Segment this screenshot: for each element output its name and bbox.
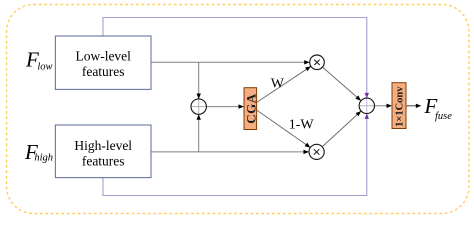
arrowhead output — [416, 104, 422, 108]
final sum circle — [359, 98, 374, 113]
arrowhead into lower multiply (left) — [304, 150, 310, 154]
svg-text:high: high — [34, 152, 53, 163]
svg-text:features: features — [82, 64, 125, 79]
wire left sum to CGA — [206, 106, 239, 108]
svg-text:fuse: fuse — [435, 111, 452, 122]
left sum circle — [191, 99, 206, 114]
1x1 conv box — [392, 83, 406, 129]
arrowhead into upper multiply (from CGA) — [305, 66, 311, 71]
skip path top (purple) — [103, 18, 367, 99]
lower multiply circle — [309, 144, 324, 159]
arrowhead into conv — [387, 104, 393, 108]
svg-text:W: W — [271, 76, 285, 91]
low-level features box — [55, 36, 151, 89]
svg-text:High-level: High-level — [74, 138, 132, 153]
arrowhead into lower multiply (from CGA) — [305, 143, 311, 148]
arrowhead into left sum from bottom — [197, 114, 201, 120]
svg-text:CGA: CGA — [243, 93, 258, 124]
wire CGA to upper multiply (W path) — [257, 66, 311, 102]
svg-text:1×1Conv: 1×1Conv — [395, 86, 406, 127]
wire junction high-level branch up into left sum — [198, 115, 200, 152]
arrowhead into CGA — [239, 104, 245, 108]
skip path bottom (purple) — [103, 114, 367, 196]
purple arrowhead into final sum top — [365, 93, 369, 98]
upper multiply circle — [310, 55, 325, 70]
svg-text:features: features — [82, 154, 125, 169]
svg-text:1-W: 1-W — [289, 117, 315, 132]
arrowhead into upper multiply (left) — [304, 60, 310, 64]
wire upper multiply to final sum — [323, 67, 362, 101]
arrowhead into final sum (from lower multiply) — [356, 111, 362, 116]
wire CGA to lower multiply (1-W path) — [257, 110, 311, 148]
purple arrowhead into final sum bottom — [365, 114, 369, 119]
wire final sum to conv — [375, 105, 388, 107]
arrowhead into final sum (from upper multiply) — [355, 95, 361, 100]
wire junction low-level branch down into left sum — [198, 62, 200, 98]
arrowhead into left sum from top — [197, 94, 201, 100]
wire conv to output — [406, 105, 416, 107]
wire lower multiply to final sum — [322, 111, 361, 147]
CGA box — [244, 88, 257, 130]
svg-text:Low-level: Low-level — [75, 49, 131, 64]
high-level features box — [55, 125, 151, 178]
svg-text:low: low — [37, 62, 52, 73]
wire low-level box to upper multiply — [151, 61, 309, 63]
wire high-level box to lower multiply — [151, 151, 308, 153]
